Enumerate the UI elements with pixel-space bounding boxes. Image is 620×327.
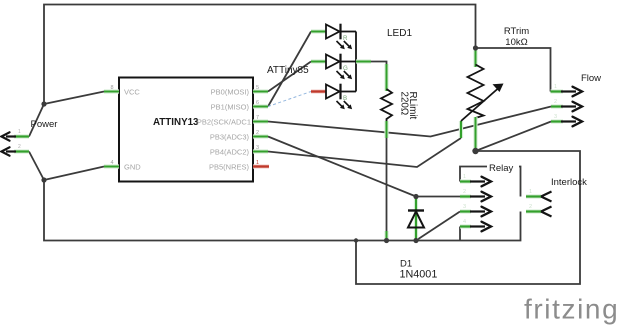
svg-text:1: 1: [554, 84, 557, 90]
svg-text:fritzing: fritzing: [524, 294, 619, 325]
svg-text:6: 6: [256, 100, 259, 106]
junction node: rlimit bottom: [384, 238, 389, 243]
wire: relay pin4 tap: [459, 227, 461, 241]
wire: power pin1 to power node: [29, 104, 44, 137]
svg-text:1N4001: 1N4001: [400, 269, 438, 281]
svg-text:1: 1: [529, 189, 532, 195]
connector Power pin2 (male, left): [14, 149, 29, 153]
wire: PB3 to diode node: [268, 137, 416, 197]
svg-text:3: 3: [256, 145, 259, 151]
wire: RLimit bottom to ground bus: [386, 136, 388, 241]
pin PB5(NRES) stub unconnected: [253, 164, 269, 168]
svg-text:3: 3: [554, 114, 557, 120]
wire: power pin2 to ground node: [29, 152, 44, 181]
svg-text:PB5(NRES): PB5(NRES): [209, 163, 250, 172]
svg-text:GND: GND: [124, 163, 141, 172]
svg-text:2: 2: [529, 204, 532, 210]
LED1 green element diode: [326, 54, 356, 80]
svg-text:R: R: [343, 35, 348, 42]
svg-text:PB4(ADC2): PB4(ADC2): [210, 148, 250, 157]
svg-text:8: 8: [111, 85, 114, 91]
svg-text:RTrim: RTrim: [504, 26, 529, 37]
junction node: diode top: [413, 194, 418, 199]
wire: diode bottom node to relay pin3: [416, 212, 460, 241]
pin PB0(MOSI) stub: [253, 89, 268, 93]
pin PB2(SCK/ADC1 stub: [253, 119, 268, 123]
connector Power pin1 (male, left): [14, 134, 29, 138]
wire: PB0 to LED green anode: [268, 62, 311, 92]
connector Relay pin4 (male, right): [460, 224, 471, 228]
diode D1: [414, 197, 418, 241]
svg-text:PB2(SCK/ADC1: PB2(SCK/ADC1: [197, 118, 251, 127]
potentiometer RTrim wiper pin: [459, 121, 463, 138]
wire: ground bus drop to bottom rail and right riser: [356, 151, 580, 284]
wire: PB2 to Flow pin2: [268, 107, 551, 137]
LED1 common cathode bus: [355, 32, 357, 92]
wire: relay pin1 to interlock pin1: [460, 167, 521, 197]
svg-text:2: 2: [256, 130, 259, 136]
LED1 red element anode stub: [311, 29, 326, 33]
svg-text:G: G: [343, 65, 348, 72]
svg-text:Flow: Flow: [581, 73, 601, 84]
connector Flow pin2 (male, right): [551, 104, 563, 108]
svg-text:1: 1: [18, 129, 21, 135]
ratsnest: PB1 to LED blue anode: [268, 92, 311, 107]
wire: ground node to GND pin: [44, 167, 104, 181]
wire: pot top node to Flow pin1: [476, 48, 551, 92]
wire: green tail into rlimit bottom junction: [384, 231, 388, 241]
wire: VCC top loop from power node to RTrim top: [44, 5, 476, 105]
svg-text:10kΩ: 10kΩ: [505, 37, 527, 48]
LED1 blue element diode: [326, 84, 356, 110]
connector Relay pin3 (male, right): [460, 209, 471, 213]
pin PB1(MISO) stub: [253, 104, 268, 108]
svg-text:Relay: Relay: [489, 163, 514, 174]
LED1 common pin stub: [356, 59, 371, 63]
wire: ground bus bottom run: [44, 180, 521, 241]
pin GND stub: [104, 164, 119, 168]
connector Interlock pin2 (female): [526, 209, 541, 213]
wire: LED common to RLimit top: [371, 62, 387, 69]
junction node: diode bottom: [413, 238, 418, 243]
label Relay: [487, 162, 519, 172]
LED1 blue element anode stub unconnected: [311, 89, 326, 93]
junction node: power gnd: [41, 177, 46, 182]
pin VCC stub: [104, 89, 119, 93]
junction node: pot bottom: [472, 148, 478, 154]
potentiometer RTrim 10k: [473, 48, 477, 67]
svg-text:PB3(ADC3): PB3(ADC3): [210, 133, 250, 142]
IC U1 ATTINY13 body: [119, 78, 253, 182]
connector Relay pin2 (male, right): [460, 194, 471, 198]
connector Relay pin1 (male, right): [460, 179, 471, 183]
svg-text:ATTINY13: ATTINY13: [153, 117, 199, 128]
svg-text:1: 1: [256, 160, 259, 166]
junction node: power vcc: [41, 101, 46, 106]
potentiometer RTrim wiper arrow: [461, 89, 498, 122]
svg-text:2: 2: [554, 99, 557, 105]
wire: power node to VCC pin: [44, 92, 104, 105]
connector Interlock pin1 (female): [526, 194, 541, 198]
svg-text:4: 4: [111, 160, 114, 166]
svg-text:B: B: [343, 95, 347, 102]
svg-text:5: 5: [256, 85, 259, 91]
svg-text:ATTiny85: ATTiny85: [267, 65, 309, 76]
svg-text:Interlock: Interlock: [551, 177, 587, 188]
svg-text:PB1(MISO): PB1(MISO): [211, 103, 250, 112]
svg-text:2: 2: [463, 189, 466, 195]
svg-text:LED1: LED1: [387, 28, 412, 39]
svg-text:1: 1: [463, 174, 466, 180]
junction node: bus tee at bottom drop: [354, 238, 358, 242]
LED1 green element anode stub: [311, 59, 326, 63]
LED1 red element diode: [326, 24, 356, 50]
connector Flow pin1 (male, right): [551, 89, 564, 93]
wire: PB1 to LED red anode: [268, 32, 311, 107]
wire: pot bottom node to Flow pin3: [476, 122, 552, 152]
svg-text:3: 3: [463, 204, 466, 210]
connector Flow pin3 (male, right): [551, 119, 563, 123]
resistor RLimit 220 ohm: [384, 64, 388, 91]
svg-text:2: 2: [18, 144, 21, 150]
wire: PB4 to RTrim wiper: [268, 138, 461, 167]
junction node: pot top: [473, 45, 478, 50]
pin PB4(ADC2) stub: [253, 149, 268, 153]
svg-text:4: 4: [463, 219, 466, 225]
pin PB3(ADC3) stub: [253, 134, 268, 138]
svg-text:VCC: VCC: [124, 88, 140, 97]
wire: diode node to relay pin2: [416, 196, 460, 198]
svg-text:7: 7: [256, 115, 259, 121]
svg-text:Power: Power: [31, 119, 58, 130]
svg-text:PB0(MOSI): PB0(MOSI): [211, 88, 250, 97]
